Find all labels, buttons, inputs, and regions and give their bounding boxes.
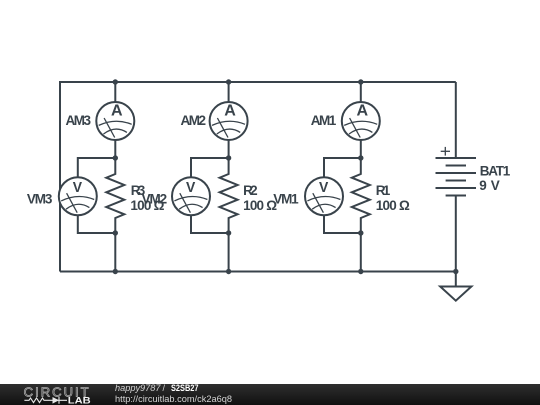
voltmeter VM1 — [305, 177, 343, 215]
svg-text:LAB: LAB — [68, 395, 91, 405]
svg-text:VM3: VM3 — [27, 191, 53, 206]
node: bottom rail / branch 3 — [113, 269, 118, 274]
labels — [27, 113, 511, 213]
wire: R3 bottom to bottom rail — [114, 233, 116, 272]
resistor R2 — [220, 158, 238, 233]
footer bar — [0, 384, 540, 405]
wire: AM3 branch top lead — [114, 82, 116, 103]
wire: AM3 to R3 lead — [114, 139, 116, 158]
voltmeter VM2 — [172, 177, 210, 215]
svg-text:V: V — [186, 179, 195, 196]
node: AM1/R1/VM1 top — [358, 155, 363, 160]
ammeter AM3 — [96, 102, 134, 140]
node: top rail / AM3 — [113, 79, 118, 84]
node: bottom rail / battery-ground — [453, 269, 458, 274]
wire: AM1 branch top lead — [360, 82, 362, 103]
battery BAT1 top lead — [455, 82, 457, 158]
node: AM3/R3/VM3 top — [113, 155, 118, 160]
wire: AM2 to R2 lead — [228, 139, 230, 158]
wire: VM3 bottom stub — [78, 214, 116, 233]
footer logo resistor-diode glyph — [24, 397, 67, 404]
node: R3/VM3 bottom — [113, 230, 118, 235]
voltmeter VM3 — [59, 177, 97, 215]
wire: VM3 top stub — [78, 158, 116, 178]
node: bottom rail / branch 2 — [226, 269, 231, 274]
svg-text:V: V — [73, 179, 82, 196]
svg-text:http://circuitlab.com/ck2a6q8: http://circuitlab.com/ck2a6q8 — [115, 394, 232, 405]
node: R2/VM2 bottom — [226, 230, 231, 235]
node: top rail / AM1 — [358, 79, 363, 84]
svg-text:BAT1: BAT1 — [480, 163, 511, 178]
svg-text:R2: R2 — [243, 183, 258, 198]
resistor R1 — [352, 158, 370, 233]
wire: top rail from node at (60,82) to battery branch — [60, 82, 456, 272]
battery plus sign — [441, 147, 450, 156]
battery BAT1 bottom lead — [455, 196, 457, 272]
svg-text:AM1: AM1 — [311, 113, 337, 128]
svg-text:100 Ω: 100 Ω — [130, 198, 164, 213]
resistor R3 — [106, 158, 124, 233]
wire: AM2 branch top lead — [228, 82, 230, 103]
node: R1/VM1 bottom — [358, 230, 363, 235]
svg-text:100 Ω: 100 Ω — [376, 198, 410, 213]
wire: VM2 top stub — [191, 158, 229, 178]
svg-text:AM3: AM3 — [66, 113, 92, 128]
wire: R1 bottom to bottom rail — [360, 233, 362, 272]
node: AM2/R2/VM2 top — [226, 155, 231, 160]
wire: bottom rail — [60, 271, 456, 273]
battery BAT1 plates — [436, 158, 477, 196]
node: bottom rail / branch 1 — [358, 269, 363, 274]
svg-text:happy9787: happy9787 — [115, 383, 162, 393]
svg-text:A: A — [357, 102, 369, 119]
ammeter AM2 — [210, 102, 248, 140]
svg-text:R3: R3 — [131, 183, 146, 198]
svg-text:A: A — [111, 102, 123, 119]
ammeter AM1 — [342, 102, 380, 140]
svg-text:V: V — [319, 179, 328, 196]
node: top rail / AM2 — [226, 79, 231, 84]
svg-text:100 Ω: 100 Ω — [243, 198, 277, 213]
svg-text:S2SB27: S2SB27 — [171, 383, 199, 393]
wire: AM1 to R1 lead — [360, 139, 362, 158]
svg-text:R1: R1 — [376, 183, 391, 198]
svg-text:AM2: AM2 — [181, 113, 207, 128]
wire: VM1 bottom stub — [324, 214, 361, 233]
svg-text:A: A — [224, 102, 236, 119]
wire: VM2 bottom stub — [191, 214, 229, 233]
wire: R2 bottom to bottom rail — [228, 233, 230, 272]
wire: VM1 top stub — [324, 158, 361, 178]
svg-text:9 V: 9 V — [479, 178, 500, 193]
ground — [440, 272, 471, 301]
